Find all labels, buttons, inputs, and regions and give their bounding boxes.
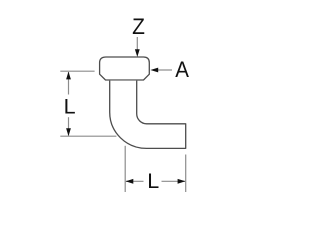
svg-text:Z: Z (132, 14, 145, 39)
leader arrow from Z to nut top (135, 37, 140, 57)
leader arrow from A to nut right side (150, 68, 172, 73)
svg-text:L: L (147, 169, 159, 193)
svg-text:L: L (64, 94, 76, 118)
bottom dimension line (horizontal) with arrows (126, 179, 186, 184)
left dimension: top extension line (60, 70, 94, 72)
bottom dimension: right extension line (185, 155, 187, 193)
svg-text:A: A (175, 57, 189, 82)
left dimension line (vertical) with arrows (66, 72, 71, 136)
bottom dimension: left extension line (124, 146, 126, 192)
pipe elbow body (110, 81, 186, 149)
left dimension: bottom extension line (60, 135, 116, 137)
nut A (hex nut on pipe end) (100, 57, 150, 80)
